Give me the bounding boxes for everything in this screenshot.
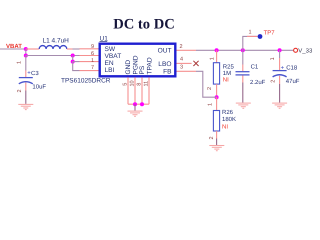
wire EN vertical [72,56,74,62]
svg-text:1M: 1M [223,70,231,77]
wire VBAT rail to pin VBAT [26,55,80,57]
svg-text:8: 8 [137,83,143,86]
wire OUT rail [196,49,293,51]
svg-text:2.2uF: 2.2uF [250,79,266,86]
svg-text:L1 4.7uH: L1 4.7uH [43,38,70,45]
svg-text:+: + [281,65,285,71]
svg-text:2: 2 [180,44,183,50]
pin C1 2 [242,76,244,83]
svg-text:FB: FB [163,69,172,76]
wire VBAT from left edge [0,48,26,50]
pin R25 1 [216,50,218,62]
wire TP7 riser [243,36,257,50]
svg-text:11: 11 [144,81,150,87]
pin PS (8) vertical [141,77,143,104]
wire ground bus under IC [128,103,149,105]
svg-text:9: 9 [91,44,94,50]
junction R25 [215,48,219,52]
svg-text:10: 10 [130,80,136,86]
svg-text:PS: PS [139,65,146,74]
wire FB to divider [196,71,217,97]
svg-text:3: 3 [180,65,183,71]
svg-text:R25: R25 [223,64,235,71]
wire C18 drop [279,50,281,58]
wire L1 to SW pin [67,48,73,50]
net connector circle OV_33 [294,48,298,52]
wire EN horizontal [73,61,80,63]
svg-text:LBI: LBI [105,67,115,74]
junction EN [71,60,75,64]
svg-text:180K: 180K [222,116,236,123]
svg-text:1: 1 [249,30,252,36]
pin PGND (10) vertical [134,77,136,104]
svg-text:1: 1 [208,103,214,106]
IC U1 TPS61025DRCR body [100,44,176,77]
svg-text:DC to DC: DC to DC [113,17,175,33]
pin C3 1 [25,71,27,78]
ground (C1) [236,103,251,108]
wire VBAT vertical drop [25,49,27,56]
junction PS [140,102,144,106]
capacitor C18 [273,64,300,85]
svg-text:TPS61025DRCR: TPS61025DRCR [61,78,111,85]
svg-text:1: 1 [210,57,216,60]
capacitor C1 [236,64,266,87]
svg-text:OUT: OUT [158,48,172,55]
junction EN tap [71,54,75,58]
svg-text:1: 1 [17,61,23,64]
no-connect X on LBO [193,61,198,66]
svg-text:1: 1 [91,58,94,64]
inductor L1 [39,38,69,50]
svg-text:2: 2 [270,80,276,83]
svg-text:TPAD: TPAD [146,57,153,74]
svg-text:4: 4 [180,56,183,62]
svg-text:2: 2 [207,87,213,90]
pin C18 1 [279,58,281,70]
svg-text:1: 1 [270,57,276,60]
pin TP7 lead [247,35,258,37]
pin SW (9) [80,48,100,50]
svg-text:GND: GND [125,60,132,75]
ground (C3) [18,104,33,109]
pin OUT (2) [177,49,197,51]
pin C18 2 [279,76,281,84]
svg-text:C18: C18 [286,64,298,71]
svg-text:V_33: V_33 [298,48,313,55]
svg-text:10uF: 10uF [32,83,46,90]
svg-text:SW: SW [105,46,116,53]
svg-text:EN: EN [105,60,114,67]
junction PGND [133,102,137,106]
svg-text:R26: R26 [222,109,234,116]
op-amp U1 reference label [100,36,109,43]
svg-text:LBO: LBO [158,61,171,68]
svg-text:NI: NI [222,124,228,131]
svg-text:47uF: 47uF [286,78,300,85]
ground (IC) [128,111,143,116]
wire junction to L1 [26,48,39,50]
svg-text:5: 5 [123,83,129,86]
pin R26 2 [216,131,218,139]
svg-text:6: 6 [91,51,94,57]
junction VBAT/L1/C3 [24,47,28,51]
wire C3 drop [25,56,27,71]
svg-text:2: 2 [209,136,215,139]
wire R26 to ground [216,139,218,146]
wire C18 to ground [279,84,281,103]
pin VBAT (6) [80,55,100,57]
ground (C18) [272,103,287,108]
pin C3 2 [25,83,27,91]
svg-text:NI: NI [223,76,229,83]
resistor R25 [213,63,234,84]
junction C18 [278,48,282,52]
wire IC ground stem [134,104,136,110]
pin GND (5) vertical [127,77,129,104]
test point TP7 [258,34,263,39]
pin LBO (4) [177,62,192,64]
svg-text:2: 2 [17,89,23,92]
wire LBI vertical and horizontal [73,62,80,71]
pin EN (1) [80,61,100,63]
svg-text:C3: C3 [31,70,39,77]
pin TPAD (11) vertical [148,77,150,104]
pin R26 1 [216,97,218,110]
wire C3 to ground [25,91,27,104]
wire C1 to ground [242,83,244,103]
junction TP7/C1 [241,48,245,52]
pin R25 2 [216,84,218,97]
wire C1 drop [242,50,244,64]
svg-text:TP7: TP7 [264,30,276,37]
capacitor C3 [19,70,47,90]
pin LBI (7) [80,70,100,72]
svg-text:7: 7 [91,65,94,71]
resistor R26 [213,109,236,131]
ground (R26) [209,146,224,151]
junction FB/R25/R26 [215,95,219,99]
svg-text:C1: C1 [251,64,259,71]
junction VBAT rail [24,54,28,58]
pin FB (3) [177,70,197,72]
pin C1 1 [242,65,244,72]
